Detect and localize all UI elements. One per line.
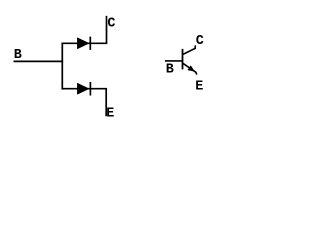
wire top branch and collector riser: [62, 16, 106, 43]
wire collector lead: [183, 45, 195, 54]
svg-text:E: E: [195, 79, 203, 94]
svg-text:C: C: [107, 17, 115, 32]
wire base horizontal: [14, 60, 64, 62]
wire bottom branch and emitter drop: [62, 89, 106, 117]
emitter arrowhead: [188, 66, 195, 72]
wire base lead: [165, 60, 183, 62]
wire emitter lead: [183, 63, 197, 74]
wire vertical bus: [61, 43, 63, 90]
diode D2 cathode bar: [89, 82, 91, 96]
svg-text:E: E: [106, 107, 114, 122]
diode D1 triangle: [77, 38, 89, 49]
transistor Q1 base bar: [182, 49, 184, 70]
svg-text:C: C: [196, 34, 204, 49]
diode D1 cathode bar: [89, 37, 91, 50]
diode D2 triangle: [77, 83, 89, 94]
svg-text:B: B: [166, 63, 174, 78]
